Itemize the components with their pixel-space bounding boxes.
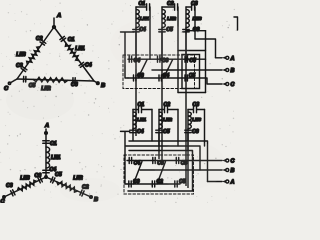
rail C (block1) [128,78,222,84]
inductor LH2 (block2) [159,110,162,160]
capacitor C2 [40,40,46,45]
capacitor C4 (bank row2 block1) [159,75,161,81]
svg-text:LH1: LH1 [51,155,61,161]
capacitor C2 (star) [80,190,84,196]
capacitor C6 (bank row1 block1) [158,56,160,62]
wire elbow 1 (block2) [133,162,142,185]
inductor LH2 (star) [57,182,78,193]
svg-text:LH2: LH2 [163,117,172,123]
capacitor C6 (block1) [185,28,187,29]
wire outer loop top edge (block1) [178,50,206,52]
wire elbow 2 (block2) [157,162,166,185]
capacitor C6 (block2) [187,129,189,130]
svg-text:C6: C6 [192,129,199,135]
wire branch3 route to C (block2) [129,133,193,191]
wire branch B [46,177,91,197]
svg-text:B: B [231,68,235,74]
capacitor C4 (star) [43,170,49,172]
wire spur from C6 (block1) [186,30,206,32]
terminal A (block2) [222,180,226,183]
wire side A-B [54,27,94,81]
wire left bus (block1) [121,32,135,78]
wire right drop 3 (block1) [194,7,196,39]
capacitor C3 (star) [11,190,15,196]
inductor LH2 [33,77,68,82]
svg-text:A: A [56,13,61,19]
wire A terminal lead (block1) [216,57,223,59]
dashed capacitor-bank box (block1) [123,55,195,89]
svg-text:C2: C2 [167,1,174,7]
capacitor C1 (star) [43,141,49,143]
inductor LH3 [27,47,40,65]
node B (delta) [94,81,98,83]
wire top bar branch 3 (block1) [186,6,191,8]
node C (delta) [10,79,17,83]
svg-text:C3: C3 [191,1,198,7]
svg-text:LH3: LH3 [16,52,26,58]
svg-text:C1: C1 [68,37,75,43]
wire top bar branch 2 (block1) [162,6,174,8]
svg-text:B: B [101,83,105,89]
capacitor C2 (bank row2 block2) [152,181,154,187]
capacitor C5 (bank row2 block1) [185,75,187,81]
rail A (block1) [128,58,206,60]
svg-text:C6: C6 [71,82,78,88]
wire branch2 down (block1) [161,32,163,59]
svg-text:C3: C3 [16,63,23,69]
wire right drop 1 (block2) [151,110,153,142]
capacitor C6 (bank row2 block1) [134,75,136,81]
capacitor C6 [73,78,75,84]
capacitor C1 (block2) [139,106,142,112]
junction dot branch2-railA [161,58,163,60]
wire branch1 down (block1) [135,32,137,59]
node C (star) [3,196,5,198]
svg-text:C5: C5 [55,172,62,178]
inductor LH3 (star) [17,180,36,190]
capacitor C3 (block1) [192,4,195,10]
junction dot branch1-railA [135,58,137,60]
terminal B (block1) [222,69,226,72]
svg-text:C6: C6 [35,173,42,179]
capacitor C5 (block1) [161,28,163,29]
terminal B (block2) [222,169,226,172]
inductor LH1 (block1) [136,7,139,136]
capacitor C4 (block2) [132,129,134,130]
svg-text:B: B [231,168,235,174]
capacitor C3 (block2) [194,106,197,112]
node A (star) [45,132,48,135]
svg-text:C1: C1 [139,1,146,7]
solid line above box bottom (block2) [128,190,193,192]
svg-text:LH2: LH2 [167,16,176,22]
svg-text:LH3: LH3 [193,16,202,22]
inductor LH2 (block1) [162,7,165,162]
junction dot branch3-railA [186,58,188,60]
svg-text:C3: C3 [6,183,13,189]
capacitor C2 (block2) [165,106,168,112]
svg-text:LH3: LH3 [20,176,30,182]
capacitor C5 (bank row1 block1) [185,56,187,62]
wire elbow 1 (block1) [138,60,147,78]
wire top bar branch 3 (block2) [188,109,193,111]
wire right drop 3 (block2) [204,110,206,147]
svg-text:C2: C2 [164,102,171,108]
svg-text:LH1: LH1 [75,46,85,52]
wire top bar branch 1 (block1) [136,6,146,8]
terminal A (block1) [222,56,226,59]
capacitor C2 (block1) [175,4,178,10]
svg-text:LH1: LH1 [137,117,146,123]
stray page mark top right [234,17,238,30]
node B (star) [90,196,93,199]
capacitor C6 (bank row2 block2) [129,181,131,187]
rail C row1 (block2) [127,160,222,162]
wire branch2 route to B (block2) [126,133,200,170]
svg-text:C1: C1 [50,141,57,147]
svg-text:C4: C4 [137,129,144,135]
wire right drop 2 (block2) [177,110,179,147]
wire right drop 2 (block1) [177,7,179,93]
wire top bar branch 1 (block2) [133,109,138,111]
svg-text:C5: C5 [189,73,196,79]
rail A (block2) [208,181,223,183]
rail B (block2) [140,169,222,171]
wire outer loop right edge (block1) [205,31,207,93]
wire right drop 1 (block1) [149,7,151,59]
inductor LH1 (star) [46,147,50,168]
svg-text:C: C [231,159,235,165]
wire branch3 loop right (block1) [195,39,216,58]
capacitor C1 [60,36,66,41]
rail B (block1) [152,69,222,71]
capacitor C6 (bank row1 block2) [153,158,155,164]
dashed capacitor-bank box (block2) [124,155,194,194]
wire top bar branch 2 (block2) [159,109,164,111]
rail row2 (block2) [127,183,180,185]
capacitor C4 (bank row1 block2) [129,158,131,164]
wire left bus (block2) [121,131,130,184]
solid rectangle inner (block1) [182,55,200,89]
svg-text:C3: C3 [193,102,200,108]
svg-text:LH3: LH3 [192,117,201,123]
capacitor C1 (block1) [147,4,150,10]
svg-text:C5: C5 [189,58,196,64]
terminal C (block2) [222,159,226,162]
svg-text:C2: C2 [36,36,43,42]
inductor LH1 (block2) [133,110,136,134]
svg-text:C: C [231,82,235,88]
capacitor C4 (block1) [135,28,137,29]
capacitor C5 (star) [51,177,55,183]
svg-text:A: A [44,123,49,129]
svg-text:A: A [230,180,235,186]
wire side A-C [17,27,54,79]
capacitor C5 [24,76,26,82]
capacitor C5 (block2) [158,129,160,130]
capacitor C6 (star) [38,177,42,183]
wire branch A [45,133,47,177]
svg-text:C5: C5 [163,129,170,135]
wire branch C [4,177,46,197]
svg-text:C4: C4 [85,62,92,68]
wire outer loop bottom (block1) [178,92,206,94]
inductor LH1 [65,43,78,60]
inductor LH3 (block1) [186,7,189,186]
svg-text:A: A [230,56,235,62]
svg-text:C4: C4 [134,161,141,167]
inductor LH3 (block2) [188,110,191,189]
capacitor C5 (bank row1 block2) [176,158,178,164]
capacitor C5 (bank row2 block2) [175,181,177,187]
wire branch1 route to A (block2) [129,133,208,182]
wire side C-B [17,79,94,81]
node center (star) [45,176,47,178]
wire branch3 down (block1) [185,32,187,59]
node A (delta) [53,18,55,27]
capacitor C4 [79,62,85,67]
wire elbow 2 (block1) [164,60,173,78]
capacitor C4 (bank row1 block1) [129,56,131,62]
terminal C (block1) [222,83,226,86]
capacitor C3 [21,67,27,72]
